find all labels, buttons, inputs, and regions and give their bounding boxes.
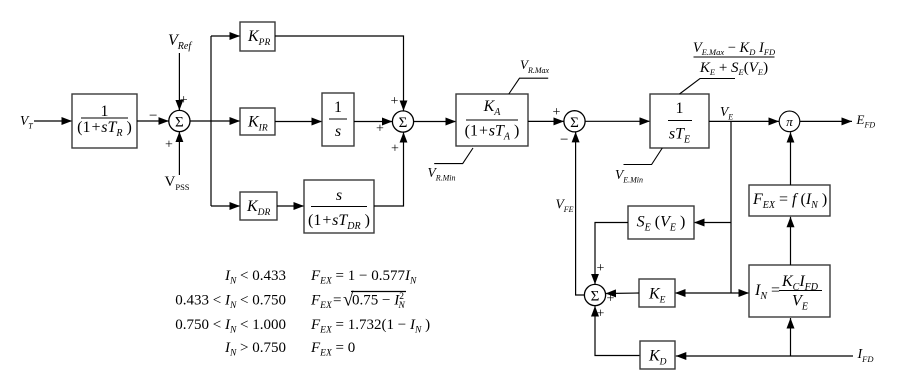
label V_Ref	[168, 32, 192, 52]
svg-text:Σ: Σ	[175, 115, 184, 131]
svg-text:π: π	[786, 114, 793, 129]
wire branch to K_DR	[211, 205, 240, 207]
wire S3 to TE	[585, 120, 650, 122]
svg-text:+: +	[553, 105, 561, 120]
plus sign S4 top	[597, 261, 605, 276]
plus sign S2 top	[391, 94, 399, 109]
wire multiplier to E_FD	[800, 120, 852, 122]
svg-text:+: +	[165, 138, 173, 153]
wire K_E to S4	[606, 292, 640, 295]
equation row 3 condition 0.750 < I_N < 1.000	[175, 317, 286, 336]
wire branch vertical	[210, 36, 212, 206]
wire TE to multiplier	[709, 120, 779, 122]
wire V_E to SE block	[694, 222, 731, 224]
callout V_RMin	[434, 148, 473, 164]
plus sign S3 west	[553, 105, 561, 120]
equation row 1 condition I_N < 0.433	[224, 268, 286, 287]
block TR 1/(1+sTR)	[72, 94, 137, 148]
wire V_T to block TR	[34, 120, 72, 122]
plus sign S4 east	[607, 292, 615, 307]
svg-text:+: +	[180, 93, 188, 108]
label I_FD	[857, 347, 875, 364]
block K_D	[640, 341, 675, 369]
svg-text:Σ: Σ	[399, 115, 408, 131]
label V_PSS	[165, 174, 190, 192]
svg-text:1: 1	[676, 100, 684, 117]
plus sign S2 bottom	[391, 142, 399, 157]
svg-text:0.75 − I2N: 0.75 − I2N	[352, 292, 406, 311]
block washout s/(1+sTDR)	[304, 180, 374, 233]
callout EMax fraction	[680, 79, 736, 95]
wire FEX to multiplier	[790, 132, 792, 185]
plus sign S4 bottom	[597, 307, 605, 322]
equation row 4 condition I_N > 0.750	[224, 340, 286, 359]
block K_DR	[240, 192, 277, 220]
wire V_E drop	[730, 121, 732, 293]
wire V_E junction to IN block	[731, 292, 749, 294]
svg-text:Σ: Σ	[591, 289, 600, 305]
wire block TR to summer S1	[137, 120, 169, 122]
wire KD to S4	[595, 306, 640, 356]
block FEX F_EX = f(I_N)	[749, 185, 830, 216]
block integrator 1/s	[322, 93, 354, 146]
block IN I_N = K_C I_FD / V_E	[749, 265, 830, 317]
block SE S_E(V_E)	[628, 206, 694, 239]
multiplier PI	[779, 111, 800, 132]
svg-text:s: s	[336, 187, 342, 204]
label E_FD	[856, 112, 876, 130]
label V_E	[720, 104, 733, 122]
svg-text:Σ: Σ	[570, 115, 579, 131]
block K_PR	[240, 22, 275, 51]
equation row 2 condition 0.433 < I_N < 0.750	[175, 293, 286, 312]
svg-text:−: −	[560, 132, 568, 148]
label V_EMin	[615, 167, 643, 184]
callout V_EMin	[624, 148, 663, 165]
svg-text:=: =	[333, 293, 341, 309]
summer S4	[584, 284, 605, 305]
svg-text:+: +	[391, 94, 399, 109]
wire S2 to KA	[414, 121, 456, 123]
wire KA to S3	[528, 120, 564, 122]
wire branch to K_PR	[211, 35, 240, 37]
summer S2	[392, 111, 413, 132]
wire V_PSS to S1	[178, 132, 180, 175]
wire K_PR to S2	[275, 36, 404, 111]
plus sign S2 west	[376, 122, 384, 137]
block TE 1/sTE	[650, 94, 709, 148]
equation row 2 formula F_EX = sqrt(0.75 - I_N^2)	[310, 290, 406, 312]
label V_RMin	[428, 165, 456, 182]
plus sign S1 top	[180, 93, 188, 108]
minus sign S3 south	[560, 132, 568, 148]
svg-text:FEX = 0: FEX = 0	[310, 340, 355, 359]
svg-text:+: +	[376, 122, 384, 137]
equation row 4 formula F_EX = 0	[310, 340, 355, 359]
wire integrator to S2	[354, 121, 392, 123]
equation row 3 formula F_EX = 1.732(1 - I_N)	[310, 317, 430, 336]
wire S4 output up to S3 (V_FE feedback)	[576, 132, 585, 295]
wire K_IR to integrator	[275, 121, 322, 123]
minus sign at summer S1	[149, 108, 157, 124]
summer S3	[564, 111, 585, 132]
wire K_DR to washout block	[277, 205, 304, 207]
svg-text:+: +	[391, 142, 399, 157]
svg-text:1: 1	[334, 99, 342, 116]
block KA KA/(1+sTA)	[456, 94, 528, 146]
svg-text:+: +	[597, 261, 605, 276]
label V_RMax	[520, 57, 550, 75]
label V_FE	[556, 197, 574, 215]
wire V_E junction to K_E	[675, 292, 731, 294]
wire I_FD branch to IN	[790, 318, 792, 356]
block K_IR	[240, 108, 275, 135]
block K_E	[639, 279, 675, 307]
wire S1 to K_IR	[190, 120, 240, 122]
plus sign S1 bottom	[165, 138, 173, 153]
svg-text:KE + SE(VE): KE + SE(VE)	[699, 60, 768, 77]
callout V_RMax	[509, 78, 548, 94]
summer S1	[169, 110, 190, 131]
label limit fraction (V_EMax - K_D I_FD)/(K_E + S_E(V_E))	[693, 40, 776, 77]
svg-text:+: +	[607, 292, 615, 307]
wire SE to S4	[595, 223, 628, 285]
svg-text:s: s	[335, 123, 341, 140]
label V_T	[20, 113, 33, 131]
equation row 1 formula F_EX = 1 - 0.577 I_N	[310, 268, 417, 287]
wire V_Ref to S1	[178, 53, 180, 110]
svg-text:+: +	[597, 307, 605, 322]
wire IN to FEX	[790, 217, 792, 265]
wire I_FD to KD	[676, 355, 853, 357]
wire washout to S2	[374, 132, 404, 206]
